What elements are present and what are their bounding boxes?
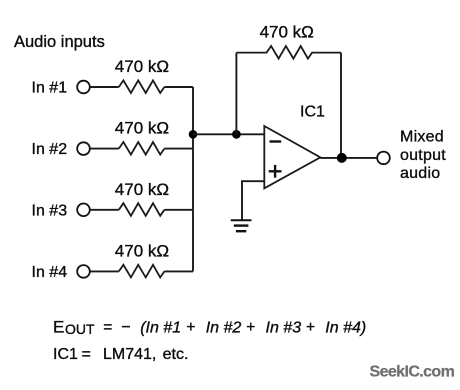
- svg-text:Audio inputs: Audio inputs: [14, 33, 105, 51]
- input terminal In #4: [77, 265, 90, 278]
- wire R4 to bus: [164, 270, 193, 272]
- wire op-amp output to terminal: [320, 157, 377, 159]
- resistor RF (feedback): [236, 46, 341, 59]
- svg-text:+: +: [306, 319, 315, 336]
- svg-text:−: −: [121, 319, 130, 336]
- resistor R2: [119, 142, 165, 155]
- svg-text:=: =: [82, 346, 91, 363]
- svg-text:+: +: [246, 319, 255, 336]
- resistor R4: [119, 265, 165, 278]
- svg-text:IC1: IC1: [300, 104, 325, 121]
- ground: [231, 220, 252, 231]
- svg-text:audio: audio: [400, 165, 440, 182]
- op-amp IC1 body: [264, 126, 320, 188]
- svg-text:470 kΩ: 470 kΩ: [115, 119, 169, 138]
- svg-text:470 kΩ: 470 kΩ: [260, 23, 314, 42]
- svg-text:In #2: In #2: [32, 141, 68, 158]
- wire feedback right riser to output node: [340, 53, 342, 158]
- wire summing bus (vertical): [192, 87, 194, 271]
- svg-text:In #3: In #3: [266, 319, 302, 336]
- input terminal In #3: [77, 204, 90, 217]
- svg-text:OUT: OUT: [65, 321, 95, 337]
- wire In #4 terminal to R4: [90, 270, 119, 272]
- wire In #2 terminal to R2: [90, 148, 119, 150]
- svg-text:In #2: In #2: [206, 319, 242, 336]
- wire bus to op-amp inverting input: [193, 133, 264, 135]
- resistor R3: [119, 203, 165, 216]
- svg-text:=: =: [103, 319, 112, 336]
- output terminal: [377, 152, 390, 165]
- label Mixed output audio: [400, 129, 446, 183]
- junction dot on bus at inverting wire: [189, 130, 198, 139]
- svg-text:LM741,: LM741,: [103, 346, 156, 363]
- svg-text:etc.: etc.: [163, 346, 189, 363]
- resistor R1: [119, 80, 165, 93]
- wire In #1 terminal to R1: [90, 86, 119, 88]
- svg-text:470 kΩ: 470 kΩ: [115, 241, 169, 260]
- wire non-inverting input to ground: [242, 181, 264, 219]
- input terminal In #2: [77, 142, 90, 155]
- note IC1 = LM741, etc.: [53, 346, 188, 363]
- svg-text:In #4: In #4: [32, 264, 68, 281]
- svg-text:SeekIC.com: SeekIC.com: [370, 364, 455, 381]
- wire In #3 terminal to R3: [90, 209, 119, 211]
- svg-text:E: E: [53, 317, 64, 336]
- svg-text:Mixed: Mixed: [400, 129, 444, 146]
- wire R1 to bus: [164, 86, 193, 88]
- op-amp IC1 inverting input marker (minus): [270, 140, 282, 142]
- svg-text:output: output: [400, 147, 446, 164]
- svg-text:470 kΩ: 470 kΩ: [115, 57, 169, 76]
- svg-text:(In #1: (In #1: [140, 319, 181, 336]
- svg-text:In #4): In #4): [325, 319, 366, 336]
- svg-text:470 kΩ: 470 kΩ: [115, 180, 169, 199]
- wire R3 to bus: [164, 209, 193, 211]
- op-amp IC1 non-inverting input marker (plus): [269, 165, 282, 178]
- formula EOUT = -(In #1 + In #2 + In #3 + In #4): [53, 317, 366, 337]
- wire R2 to bus: [164, 148, 193, 150]
- svg-text:In #3: In #3: [32, 202, 68, 219]
- svg-text:IC1: IC1: [53, 346, 78, 363]
- svg-text:+: +: [186, 319, 195, 336]
- input terminal In #1: [77, 81, 90, 94]
- junction dot at output node: [337, 153, 347, 163]
- wire feedback left riser: [235, 53, 237, 135]
- junction dot at feedback tap: [232, 130, 241, 139]
- svg-text:In #1: In #1: [32, 80, 68, 97]
